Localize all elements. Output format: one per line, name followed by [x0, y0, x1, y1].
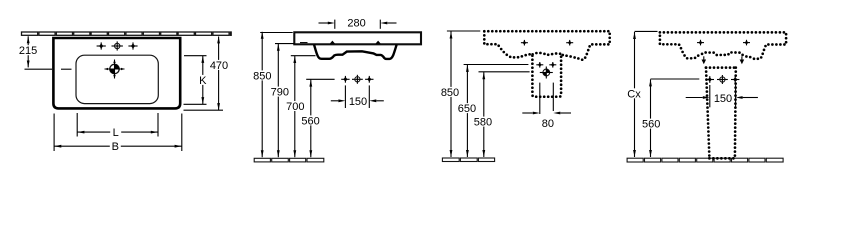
- svg-text:850: 850: [253, 70, 271, 82]
- dim 700: [291, 55, 316, 57]
- dim Cx: [635, 30, 658, 32]
- svg-text:L: L: [113, 127, 119, 139]
- svg-text:80: 80: [542, 118, 554, 130]
- tap hole middle: [112, 41, 123, 50]
- dim 150 front: [344, 85, 346, 108]
- svg-text:700: 700: [286, 101, 304, 113]
- label L: [110, 127, 121, 137]
- label 700: [285, 101, 306, 111]
- dim 850 rear: [447, 30, 480, 32]
- label Cx: [627, 88, 642, 98]
- tap hole left: [97, 42, 106, 49]
- label 580: [472, 117, 493, 127]
- label 215: [18, 45, 39, 55]
- rear slab diamond left: [521, 40, 528, 46]
- label 80: [540, 118, 555, 128]
- rear center bump dotted: [533, 53, 561, 55]
- rear fixing diamond right: [549, 62, 556, 68]
- tap hole mid ped: [717, 75, 728, 84]
- dim B: [53, 114, 55, 152]
- rear silhouette dotted: [484, 31, 609, 97]
- label 560 ped: [641, 119, 662, 129]
- fixing lug left: [330, 41, 335, 44]
- label 150 ped: [714, 93, 733, 103]
- drain symbol: [105, 60, 125, 79]
- dim 80: [522, 112, 533, 114]
- label 560 front: [300, 115, 321, 125]
- svg-text:850: 850: [441, 87, 459, 99]
- svg-text:580: 580: [474, 117, 492, 129]
- dim 150 ped: [709, 85, 711, 107]
- pedestal dotted: [706, 66, 736, 69]
- 80 extension lines: [539, 83, 541, 114]
- floor hatch front: [254, 158, 324, 162]
- svg-text:280: 280: [347, 17, 365, 29]
- sink outline top view: [53, 38, 180, 108]
- tap hole right ped: [731, 76, 739, 83]
- tap hole mid front: [352, 75, 363, 84]
- dim 850 front: [260, 32, 293, 34]
- wall hatch: [22, 32, 232, 35]
- dim 560 front: [306, 78, 334, 80]
- pedestal pointer arrow left: [703, 56, 705, 60]
- label B: [110, 141, 121, 151]
- svg-text:150: 150: [349, 96, 367, 108]
- pedestal sink silhouette dotted: [660, 32, 786, 58]
- svg-text:790: 790: [271, 87, 289, 99]
- label K: [197, 75, 208, 85]
- slab diamond left: [697, 40, 704, 46]
- label 650: [456, 103, 477, 113]
- pedestal dotted feet over floor: [709, 157, 735, 160]
- dim 580: [479, 71, 530, 73]
- fixing lug right: [376, 41, 381, 44]
- tap hole right front: [365, 76, 373, 83]
- svg-text:560: 560: [642, 119, 660, 131]
- svg-text:560: 560: [301, 115, 319, 127]
- label 850 front: [252, 70, 273, 80]
- tap hole right: [128, 42, 137, 49]
- dim 560 ped: [651, 78, 700, 80]
- dim 215: [25, 68, 53, 70]
- rear slab diamond right: [566, 40, 573, 46]
- rear target: [540, 67, 553, 79]
- svg-text:650: 650: [458, 103, 476, 115]
- floor hatch rear: [442, 158, 494, 162]
- slab front: [294, 32, 421, 44]
- dim L: [76, 113, 78, 137]
- dim 280: [334, 20, 336, 29]
- label 790: [269, 87, 290, 97]
- basin underside profile: [314, 44, 397, 59]
- svg-text:K: K: [199, 75, 207, 87]
- svg-text:B: B: [112, 141, 119, 153]
- rear fixing diamond left: [536, 62, 543, 68]
- dim 790: [275, 43, 295, 45]
- basin inner rim: [76, 55, 158, 103]
- tap hole left ped: [706, 76, 714, 83]
- label 150 front: [348, 96, 367, 106]
- svg-text:150: 150: [714, 93, 732, 105]
- dim 650: [464, 64, 529, 66]
- svg-text:Cx: Cx: [627, 88, 641, 100]
- label 470: [209, 60, 230, 70]
- svg-text:470: 470: [210, 60, 228, 72]
- fixing dash: [300, 42, 308, 44]
- slab diamond right: [743, 40, 750, 46]
- pedestal pointer arrow right: [741, 56, 743, 60]
- svg-text:215: 215: [19, 45, 37, 57]
- dim 470: [184, 109, 224, 111]
- label 850 rear: [439, 87, 460, 97]
- floor hatch ped: [627, 158, 783, 162]
- tap hole left front: [341, 76, 349, 83]
- dim K: [184, 55, 207, 57]
